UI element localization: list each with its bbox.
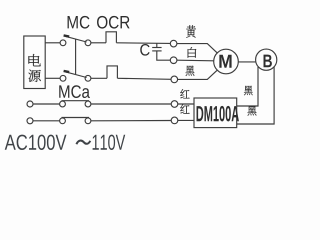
- fan B circle: [256, 49, 277, 70]
- white wire terminal: [170, 57, 177, 64]
- label 110V: [93, 135, 126, 150]
- wire: source to MC pole1: [45, 42, 60, 44]
- MC pole2 right terminal: [85, 75, 91, 81]
- fan B letter: [264, 55, 272, 68]
- MC pole1 left terminal: [60, 40, 66, 46]
- wire: red terminal 1 to DM100A: [178, 103, 194, 105]
- OCR pole1 heater element: [106, 32, 116, 43]
- label 电 (electric): [28, 54, 40, 66]
- wire: source to MC pole2: [45, 77, 60, 79]
- OCR pole2 heater element: [107, 66, 117, 78]
- DM100A controller box: [194, 98, 237, 128]
- wire: MC pole2 to OCR pole2: [91, 77, 107, 79]
- label 红 (red) 1: [180, 89, 189, 98]
- MC pole2 blade (open): [66, 72, 87, 78]
- black wire terminal: [171, 76, 178, 83]
- power source box: [24, 36, 45, 89]
- MCa contact 1 left terminal: [60, 101, 66, 107]
- control wire 1 to red terminal 1: [91, 103, 171, 105]
- label MCa (auxiliary contact): [59, 85, 90, 98]
- capacitor C bottom lead / white wire start: [157, 51, 171, 60]
- MCa contact 1 right terminal: [85, 101, 91, 107]
- MCa contact 2 left terminal: [60, 118, 66, 124]
- control wire 2 to red terminal 2: [91, 120, 171, 122]
- label DM100A: [197, 106, 239, 122]
- motor M circle: [214, 49, 239, 74]
- label OCR (overcurrent relay): [97, 16, 130, 29]
- MC mechanical link: [75, 39, 77, 74]
- control wire 2 left terminal: [27, 118, 33, 124]
- control wire 2: [33, 120, 60, 122]
- MCa contact 2 bridge (closed): [62, 117, 90, 119]
- black wire to motor: [178, 70, 218, 80]
- label AC100V: [5, 135, 67, 150]
- label 白 (white): [188, 47, 197, 57]
- MCa contact 1 bridge (closed): [62, 100, 90, 102]
- red terminal 2: [171, 117, 178, 124]
- yellow wire to motor: [177, 44, 218, 54]
- label C (capacitor): [140, 44, 149, 56]
- label 黄 (yellow): [186, 25, 196, 37]
- label tilde (wave dash): [76, 141, 90, 145]
- yellow wire terminal: [170, 40, 177, 47]
- wire: motor M to fan B: [238, 61, 256, 63]
- label 黑 (black) right 2: [248, 106, 257, 115]
- label 源 (source): [28, 70, 40, 82]
- MCa contact 2 right terminal: [85, 118, 91, 124]
- control wire 1 left terminal: [27, 101, 33, 107]
- wire: red terminal 2 to DM100A: [178, 119, 194, 121]
- black wire: B to DM100A input 2: [237, 67, 274, 124]
- label 黑 (black): [186, 66, 195, 76]
- black wire: B to DM100A input 1: [237, 67, 258, 106]
- MC pole1 blade (open): [66, 36, 87, 42]
- motor M letter: [219, 55, 231, 68]
- label MC (contactor): [68, 16, 90, 29]
- wire: OCR pole1 to yellow terminal: [116, 42, 170, 45]
- label 红 (red) 2: [180, 104, 189, 113]
- white wire to motor: [177, 59, 214, 62]
- wire: MC pole1 to OCR pole1: [91, 42, 106, 44]
- capacitor C plates: [152, 47, 161, 49]
- MC pole2 left terminal: [60, 75, 66, 81]
- red terminal 1: [171, 101, 178, 108]
- wire: OCR pole2 to black terminal: [117, 78, 171, 79]
- label 黑 (black) right 1: [244, 86, 253, 95]
- capacitor C top lead: [156, 43, 158, 47]
- MC pole1 right terminal: [85, 40, 91, 46]
- control wire 1: [33, 103, 60, 105]
